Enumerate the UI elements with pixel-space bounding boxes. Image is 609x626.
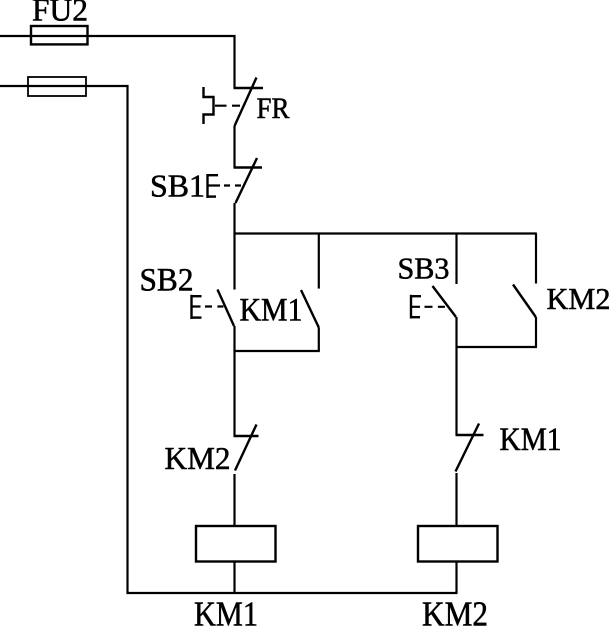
svg-text:SB3: SB3 [398,251,450,286]
svg-text:KM2: KM2 [547,281,609,316]
svg-text:SB1: SB1 [150,168,205,204]
svg-text:KM1: KM1 [240,293,303,329]
svg-text:FR: FR [257,92,290,125]
svg-text:SB2: SB2 [140,263,194,299]
svg-text:KM1: KM1 [194,595,258,626]
svg-text:FU2: FU2 [32,0,88,28]
svg-text:KM1: KM1 [500,422,562,458]
svg-text:KM2: KM2 [422,595,488,626]
svg-text:KM2: KM2 [165,440,231,476]
